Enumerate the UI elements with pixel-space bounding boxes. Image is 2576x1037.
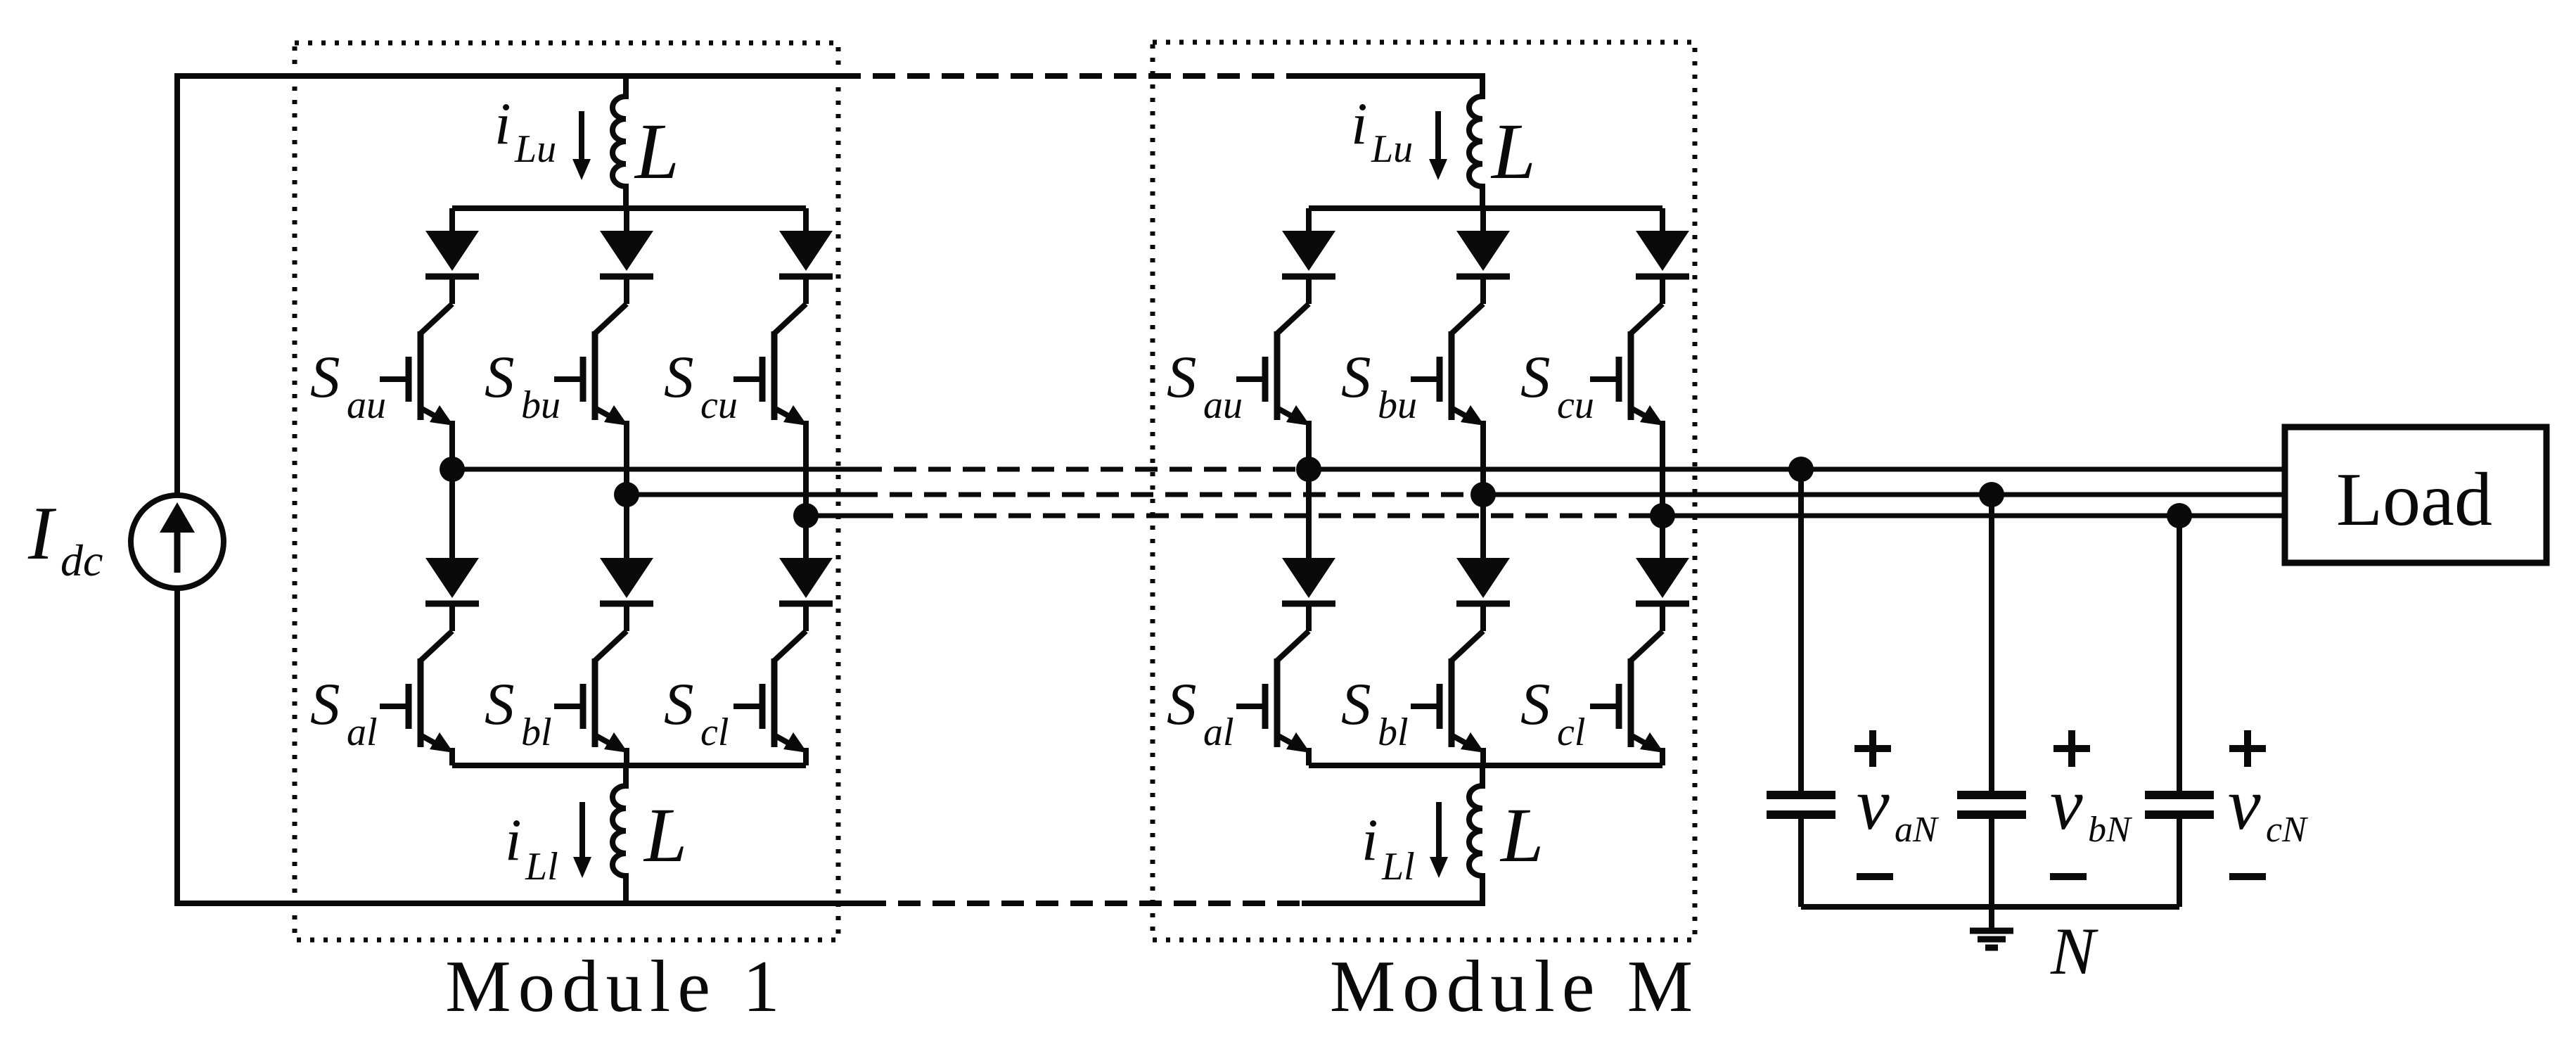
capacitor Ca plates xyxy=(1767,795,1835,815)
minus sign v_aN xyxy=(1857,873,1893,880)
wire Module M xyxy=(1660,421,1665,516)
phase a dashed link xyxy=(859,467,1303,472)
top rail Module M xyxy=(1309,205,1662,211)
svg-text:N: N xyxy=(2050,914,2098,988)
wire top dc rail solid xyxy=(177,73,838,79)
wire Module M xyxy=(1480,604,1486,631)
wire Module M xyxy=(1660,748,1665,765)
node phase b Module 1 xyxy=(614,482,639,507)
svg-text:L: L xyxy=(643,792,687,878)
node capacitor c tap xyxy=(2167,503,2192,528)
svg-text:bu: bu xyxy=(521,383,560,427)
wire top dc rail Module M segment xyxy=(1305,73,1485,79)
node capacitor b tap xyxy=(1979,482,2004,507)
bottom rail Module 1 xyxy=(452,763,806,768)
current source I_dc circle xyxy=(131,495,224,588)
wire capacitor b lower xyxy=(1989,819,1994,907)
svg-text:S: S xyxy=(485,671,515,737)
diode upper leg c Module M xyxy=(1636,231,1689,276)
svg-text:bu: bu xyxy=(1378,383,1417,427)
wire Module M xyxy=(1660,276,1665,304)
inductor L lower (i_Ll) Module 1 xyxy=(613,765,626,903)
svg-text:i: i xyxy=(505,807,522,873)
svg-text:v: v xyxy=(2050,763,2083,845)
wire Module M xyxy=(1480,276,1486,304)
wire Module 1 xyxy=(624,276,629,304)
Module 1 dotted boundary box xyxy=(295,43,838,940)
wire Module 1 xyxy=(449,748,455,765)
svg-text:Load: Load xyxy=(2336,458,2492,542)
phase c line solid from Module 1 xyxy=(806,514,871,518)
IGBT S_cu Module 1 xyxy=(733,304,807,426)
wire leg c upper Module M xyxy=(1660,208,1665,234)
svg-text:bl: bl xyxy=(521,711,552,754)
inductor L lower (i_Ll) Module M xyxy=(1469,765,1482,903)
svg-text:S: S xyxy=(485,344,515,410)
phase a line to load xyxy=(1309,467,2285,472)
svg-text:S: S xyxy=(1520,671,1551,737)
wire Module 1 xyxy=(449,469,455,561)
svg-text:Module M: Module M xyxy=(1330,945,1700,1027)
wire Module 1 xyxy=(624,604,629,631)
svg-text:Ll: Ll xyxy=(1381,845,1415,889)
svg-text:cl: cl xyxy=(700,711,729,754)
wire Module 1 xyxy=(624,495,629,561)
phase b line solid from Module 1 xyxy=(627,492,855,497)
svg-text:I: I xyxy=(27,492,57,575)
phase b dashed link xyxy=(855,492,1478,497)
svg-text:S: S xyxy=(664,671,694,737)
IGBT S_al Module M xyxy=(1236,631,1310,753)
diode upper leg c Module 1 xyxy=(779,231,833,276)
svg-text:S: S xyxy=(664,344,694,410)
phase a line solid from Module 1 xyxy=(452,467,859,472)
svg-text:S: S xyxy=(1341,344,1371,410)
wire Module 1 xyxy=(449,604,455,631)
wire Module 1 xyxy=(449,276,455,304)
node phase b Module M xyxy=(1470,482,1496,507)
svg-text:v: v xyxy=(1857,763,1890,845)
svg-text:cu: cu xyxy=(700,383,738,427)
wire left vertical lower xyxy=(174,588,180,906)
node phase a Module M xyxy=(1296,457,1321,482)
svg-text:au: au xyxy=(347,383,386,427)
svg-text:bl: bl xyxy=(1378,711,1409,754)
wire Module M xyxy=(1480,421,1486,495)
wire Module M xyxy=(1306,469,1312,561)
wire Module M xyxy=(1306,748,1312,765)
wire Module M xyxy=(1306,604,1312,631)
wire Module 1 xyxy=(624,421,629,495)
diode upper leg b Module M xyxy=(1456,231,1510,276)
Module M dotted boundary box xyxy=(1153,42,1695,940)
wire Module M xyxy=(1480,748,1486,765)
wire bottom dc rail solid xyxy=(177,901,864,906)
current source arrow xyxy=(160,502,195,573)
wire Module 1 xyxy=(803,516,809,561)
svg-text:S: S xyxy=(1520,344,1551,410)
wire Module 1 xyxy=(803,748,809,765)
minus sign v_cN xyxy=(2229,873,2266,880)
diode lower leg b Module M xyxy=(1456,558,1510,604)
diode upper leg a Module 1 xyxy=(425,231,479,276)
wire leg a upper Module 1 xyxy=(449,208,455,234)
diode lower leg c Module M xyxy=(1636,558,1689,604)
top rail Module 1 xyxy=(452,205,806,211)
svg-text:Module 1: Module 1 xyxy=(445,945,786,1027)
svg-text:cN: cN xyxy=(2266,810,2309,850)
current arrow i_Ll Module M xyxy=(1430,802,1448,878)
IGBT S_bl Module M xyxy=(1411,631,1485,753)
ground symbol N xyxy=(1970,907,2013,948)
svg-text:Lu: Lu xyxy=(514,127,556,171)
bottom rail Module M xyxy=(1309,763,1662,768)
IGBT S_cu Module M xyxy=(1590,304,1664,426)
IGBT S_cl Module 1 xyxy=(733,631,807,753)
capacitor Cb plates xyxy=(1957,795,2026,815)
plus sign v_aN xyxy=(1854,730,1891,767)
svg-text:au: au xyxy=(1203,383,1243,427)
wire leg a upper Module M xyxy=(1306,208,1312,234)
wire bottom dc rail dashed link to Module M xyxy=(864,901,1303,906)
diode upper leg b Module 1 xyxy=(600,231,653,276)
IGBT S_cl Module M xyxy=(1590,631,1664,753)
svg-text:S: S xyxy=(310,344,340,410)
diode lower leg c Module 1 xyxy=(779,558,833,604)
svg-text:al: al xyxy=(347,711,378,754)
wire Module 1 xyxy=(803,421,809,516)
wire Module M xyxy=(1480,495,1486,561)
wire leg c upper Module 1 xyxy=(803,208,809,234)
wire Module 1 xyxy=(624,748,629,765)
inductor L upper (i_Lu) Module M xyxy=(1469,76,1482,208)
diode lower leg a Module M xyxy=(1282,558,1335,604)
wire Module 1 xyxy=(449,421,455,469)
svg-text:dc: dc xyxy=(60,535,103,585)
svg-text:bN: bN xyxy=(2088,810,2133,850)
svg-text:S: S xyxy=(1167,344,1197,410)
capacitor bottom rail xyxy=(1801,904,2179,910)
IGBT S_al Module 1 xyxy=(380,631,454,753)
diode upper leg a Module M xyxy=(1282,231,1335,276)
plus sign v_bN xyxy=(2053,730,2090,767)
diode lower leg b Module 1 xyxy=(600,558,653,604)
node phase a Module 1 xyxy=(440,457,465,482)
wire capacitor c lower xyxy=(2177,819,2182,907)
svg-text:Ll: Ll xyxy=(525,845,558,889)
wire Module M xyxy=(1306,276,1312,304)
wire leg b upper Module 1 xyxy=(624,208,629,234)
IGBT S_bu Module M xyxy=(1411,304,1485,426)
svg-text:cl: cl xyxy=(1557,711,1585,754)
wire Module M xyxy=(1660,516,1665,561)
svg-text:Lu: Lu xyxy=(1371,127,1413,171)
svg-text:S: S xyxy=(310,671,340,737)
wire left vertical upper xyxy=(174,73,180,495)
svg-text:al: al xyxy=(1203,711,1234,754)
svg-text:S: S xyxy=(1341,671,1371,737)
wire Module 1 xyxy=(803,604,809,631)
wire Module M xyxy=(1306,421,1312,469)
IGBT S_bl Module 1 xyxy=(554,631,628,753)
current arrow i_Ll Module 1 xyxy=(573,802,591,878)
plus sign v_cN xyxy=(2229,730,2266,767)
wire capacitor c upper xyxy=(2177,516,2182,791)
wire Module M xyxy=(1660,604,1665,631)
IGBT S_au Module 1 xyxy=(380,304,454,426)
wire capacitor a lower xyxy=(1798,819,1804,907)
node capacitor a tap xyxy=(1788,457,1814,482)
svg-text:L: L xyxy=(1490,108,1536,196)
svg-text:cu: cu xyxy=(1557,383,1594,427)
phase c dashed link xyxy=(871,514,1657,518)
wire bottom dc rail Module M segment xyxy=(1302,901,1485,906)
IGBT S_au Module M xyxy=(1236,304,1310,426)
load box xyxy=(2285,427,2546,563)
svg-text:v: v xyxy=(2228,763,2261,845)
svg-text:S: S xyxy=(1167,671,1197,737)
wire top dc rail dashed link to Module M xyxy=(838,73,1307,79)
svg-text:L: L xyxy=(1499,792,1544,878)
diode lower leg a Module 1 xyxy=(425,558,479,604)
phase c line to load xyxy=(1662,514,2285,518)
IGBT S_bu Module 1 xyxy=(554,304,628,426)
node phase c Module M xyxy=(1650,503,1675,528)
current arrow i_Lu Module M xyxy=(1429,111,1447,180)
node phase c Module 1 xyxy=(793,503,819,528)
wire capacitor a upper xyxy=(1798,469,1804,791)
wire leg b upper Module M xyxy=(1480,208,1486,234)
svg-text:i: i xyxy=(1361,807,1378,873)
current arrow i_Lu Module 1 xyxy=(572,111,591,180)
wire capacitor b upper xyxy=(1989,495,1994,791)
inductor L upper (i_Lu) Module 1 xyxy=(613,76,626,208)
minus sign v_bN xyxy=(2050,873,2087,880)
phase b line to load xyxy=(1483,492,2285,497)
svg-text:aN: aN xyxy=(1895,810,1940,850)
svg-text:i: i xyxy=(1351,91,1368,157)
svg-text:L: L xyxy=(634,108,679,196)
wire Module 1 xyxy=(803,276,809,304)
svg-text:i: i xyxy=(494,91,511,157)
capacitor Cc plates xyxy=(2145,795,2214,815)
